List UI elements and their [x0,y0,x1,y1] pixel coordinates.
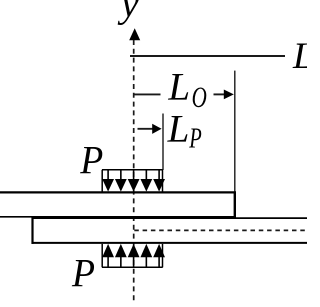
svg-text:P: P [79,137,103,182]
bottom distributed load box [102,244,163,267]
dimension arrow L_P (points right) [138,124,162,134]
svg-text:O: O [192,82,207,114]
bottom plate (lower adherend) [32,217,308,244]
y-axis centerline (vertical dashed) [133,40,135,303]
svg-text:L: L [292,36,307,77]
dimension line L (top horizontal) [130,55,285,57]
extension line at load edge (x=163) [162,114,164,171]
top distributed load box [102,170,163,192]
svg-text:P: P [189,123,202,155]
top plate (upper adherend) [0,192,236,218]
svg-text:L: L [167,66,190,109]
dimension line L_O left segment [134,93,161,95]
svg-text:P: P [71,251,95,296]
top load arrows (5 down arrows) [102,170,165,192]
extension line at overlap end (x=235) [234,71,236,192]
label L_O [167,66,206,115]
bottom load arrows (5 up arrows) [102,244,165,267]
svg-text:y: y [117,0,139,25]
svg-text:L: L [167,108,190,151]
label L_P [167,108,202,155]
dimension arrow L_O (points right) [214,90,234,100]
x-axis centerline (horizontal dashed) [134,229,307,231]
y-axis arrowhead [129,28,140,40]
